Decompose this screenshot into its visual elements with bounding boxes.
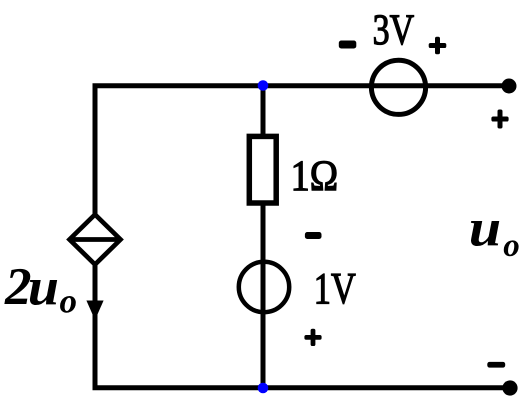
svg-text:1V: 1V xyxy=(314,263,356,313)
svg-text:o: o xyxy=(60,282,78,321)
svg-text:o: o xyxy=(503,228,520,264)
svg-text:1Ω: 1Ω xyxy=(291,153,339,200)
svg-text:u: u xyxy=(28,257,59,316)
svg-text:3V: 3V xyxy=(373,7,415,54)
svg-text:u: u xyxy=(469,199,501,258)
